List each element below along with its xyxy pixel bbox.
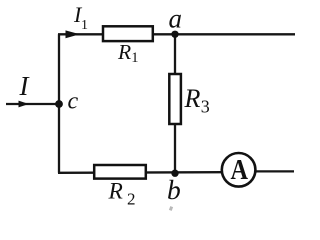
svg-text:a: a — [169, 3, 183, 33]
svg-text:R: R — [184, 84, 201, 113]
svg-text:R: R — [108, 178, 123, 204]
svg-text:3: 3 — [201, 96, 210, 116]
svg-text:1: 1 — [81, 18, 88, 33]
svg-text:c: c — [68, 89, 79, 115]
svg-text:A: A — [231, 153, 248, 185]
svg-text:1: 1 — [131, 50, 138, 66]
svg-text:R: R — [117, 40, 131, 64]
svg-text:b: b — [167, 174, 181, 205]
svg-text:2: 2 — [127, 189, 136, 208]
